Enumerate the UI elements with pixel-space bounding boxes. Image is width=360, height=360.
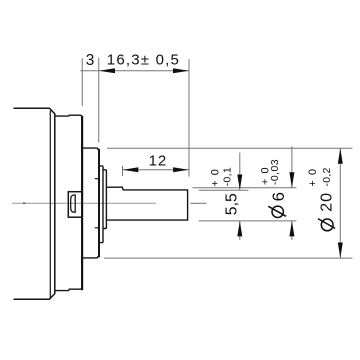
svg-text:+ 0: + 0 xyxy=(307,169,319,187)
dim 12 right arrow xyxy=(173,167,189,172)
dim 16,3 right arrow xyxy=(173,68,189,73)
boss diam20 bottom edge xyxy=(83,256,99,258)
dim 3 and 16,3 dimension line xyxy=(80,70,189,72)
svg-text:-0,2: -0,2 xyxy=(321,167,333,186)
bushing root tick top xyxy=(95,178,99,180)
svg-text:12: 12 xyxy=(149,152,168,169)
svg-text:16,3± 0,5: 16,3± 0,5 xyxy=(107,51,180,68)
dim 12 dimension line xyxy=(123,169,189,171)
centerline dash dot xyxy=(23,202,26,204)
dim diam20 dimension line xyxy=(339,148,341,258)
dim diam6 symbol slash xyxy=(268,206,286,216)
dim diam6 dimension line top segment xyxy=(291,146,293,188)
front housing top edge xyxy=(55,115,82,117)
dim 16,3 left arrow xyxy=(99,68,115,73)
boss diam20 top edge xyxy=(83,148,99,150)
dim diam6 top extension line xyxy=(193,187,297,189)
svg-text:5,5: 5,5 xyxy=(224,193,241,215)
svg-text:-0,03: -0,03 xyxy=(269,159,281,185)
dim 5,5 bottom arrow xyxy=(237,221,242,237)
dim diam6 symbol circle xyxy=(272,206,283,217)
boss diam20 face line xyxy=(98,149,100,257)
rear body seam line xyxy=(49,111,51,299)
svg-text:+ 0: + 0 xyxy=(209,169,221,187)
svg-text:20: 20 xyxy=(319,192,336,212)
dim diam6 top arrow xyxy=(289,172,294,188)
dim diam20 symbol slash xyxy=(318,219,335,229)
dim diam20 bottom extension line xyxy=(104,257,353,259)
dim diam20 top arrow xyxy=(338,148,343,164)
front housing bottom edge xyxy=(55,287,82,291)
shaft outline with flat xyxy=(106,187,187,220)
lug on face xyxy=(68,192,82,218)
dim 12 left arrow xyxy=(123,167,139,172)
dim diam20 bottom arrow xyxy=(338,243,343,259)
svg-text:6: 6 xyxy=(269,192,288,201)
svg-text:3: 3 xyxy=(86,52,95,69)
dim 5,5 dimension line bottom segment xyxy=(239,221,241,240)
dim 5,5 dimension line top segment xyxy=(239,153,241,191)
dim 16,3/12: shared extension line at shaft tip xyxy=(188,59,190,176)
dim diam20 top extension line xyxy=(107,147,353,149)
centerline xyxy=(12,202,156,204)
bushing xyxy=(103,170,106,229)
lug D-hole xyxy=(71,195,76,212)
dim 5,5 top arrow xyxy=(237,175,242,191)
dim 3/16,3: shared extension line at boss face xyxy=(98,58,100,143)
dim diam6 dimension line bottom segment xyxy=(291,221,293,240)
dim diam20 symbol circle xyxy=(321,219,333,231)
dim 5,5 text with tolerance xyxy=(209,167,240,215)
collar xyxy=(100,166,103,243)
dim 12: left extension line at flat start xyxy=(122,166,124,176)
dim 5,5/diam6 bottom extension line xyxy=(199,220,297,222)
svg-text:-0,1: -0,1 xyxy=(221,167,233,186)
dim diam6 bottom arrow xyxy=(289,221,294,237)
centerline right segment xyxy=(191,202,207,204)
bushing root tick bottom xyxy=(95,227,99,229)
dim 5,5 top extension line (flat) xyxy=(199,189,249,191)
dim 3: left extension line xyxy=(81,58,83,106)
front housing face line xyxy=(81,116,83,290)
rear body outline xyxy=(14,108,55,299)
